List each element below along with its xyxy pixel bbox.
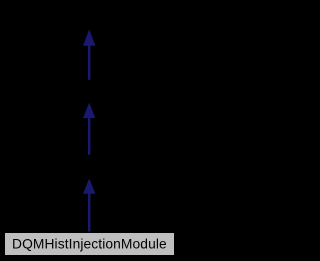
- inheritance arrow 3 (from DQMHistInjectionModule box): [83, 179, 95, 232]
- inheritance arrow 1 (to top ancestor box): [83, 29, 95, 80]
- class node DQMHistInjectionModule: [5, 233, 174, 255]
- inheritance arrow 2 (to middle ancestor box): [83, 103, 95, 155]
